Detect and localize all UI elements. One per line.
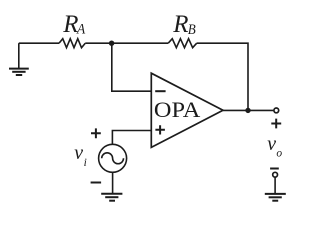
svg-text:o: o (276, 147, 282, 159)
wire noninverting input to source (112, 131, 151, 144)
svg-text:R: R (172, 11, 188, 38)
source plus polarity (91, 128, 101, 138)
node output junction (245, 108, 250, 113)
wire op-amp output (223, 109, 273, 111)
resistor RB (168, 39, 197, 48)
ground GND3 right (265, 194, 286, 201)
svg-text:v: v (74, 142, 84, 164)
label RB (172, 11, 195, 38)
output terminal circle (274, 108, 279, 113)
lower terminal circle (273, 172, 278, 177)
source sine wave (102, 153, 124, 164)
svg-text:B: B (188, 22, 196, 38)
vo minus polarity (270, 168, 279, 170)
resistor RA (59, 39, 85, 48)
source vi circle (99, 144, 127, 172)
ground GND2 source (101, 194, 122, 201)
svg-text:A: A (76, 22, 86, 38)
label vi (74, 142, 87, 169)
wire left to RA (19, 42, 59, 44)
vo plus polarity (271, 119, 281, 129)
label RA (62, 11, 86, 38)
op-amp inverting input minus (155, 90, 165, 92)
wire RA to RB (85, 42, 168, 44)
svg-text:i: i (84, 157, 87, 169)
svg-text:v: v (267, 133, 277, 155)
svg-text:OPA: OPA (154, 97, 201, 122)
wire feedback down to inverting input (112, 43, 152, 91)
wire RB to output column (197, 43, 248, 110)
op-amp noninverting input plus (155, 125, 165, 134)
node junction feedback (109, 41, 114, 46)
label vo (267, 133, 282, 159)
op-amp U1 triangle (151, 73, 223, 147)
wire source to ground (112, 172, 114, 193)
ground GND1 left (9, 43, 29, 75)
wire lower terminal to ground (274, 177, 276, 193)
source minus polarity (91, 182, 102, 184)
